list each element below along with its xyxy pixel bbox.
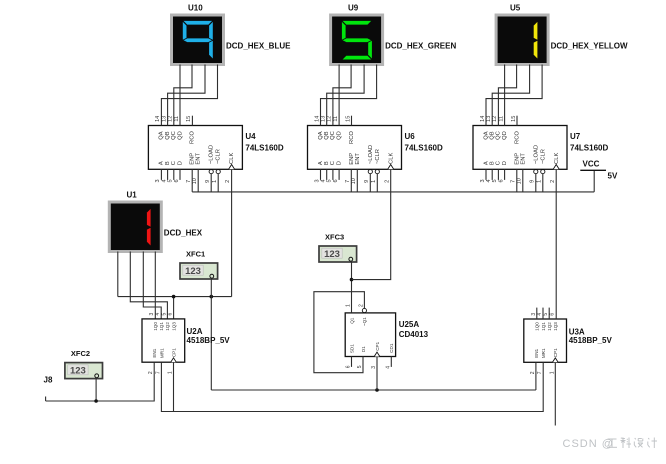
svg-text:U1: U1 — [127, 191, 138, 200]
wire U4 CLK to node N1 — [231, 169, 233, 296]
svg-text:1Q2: 1Q2 — [165, 322, 170, 331]
svg-text:QC: QC — [171, 131, 177, 140]
svg-text:CD4013: CD4013 — [399, 330, 429, 339]
svg-text:QA: QA — [483, 131, 489, 140]
junction N2 — [375, 388, 379, 392]
svg-text:10: 10 — [517, 178, 523, 184]
svg-text:A: A — [483, 161, 489, 165]
wire enable bus to VCC — [192, 191, 594, 193]
svg-text:4518BP_5V: 4518BP_5V — [187, 336, 231, 345]
svg-text:U4: U4 — [245, 132, 256, 141]
wire U7 CLK to U3A 1Q3 — [555, 169, 557, 319]
svg-text:1: 1 — [371, 180, 377, 183]
svg-text:C: C — [330, 161, 336, 165]
wire node bus U1 pin1 — [118, 296, 232, 298]
svg-text:15: 15 — [511, 116, 517, 122]
svg-text:9: 9 — [364, 180, 370, 183]
svg-text:4: 4 — [385, 366, 391, 369]
svg-text:QD: QD — [502, 131, 508, 140]
svg-text:U10: U10 — [188, 4, 203, 13]
svg-text:~LOAD: ~LOAD — [533, 145, 539, 164]
svg-text:6: 6 — [168, 312, 174, 315]
svg-text:2: 2 — [358, 304, 364, 307]
svg-text:15: 15 — [345, 116, 351, 122]
svg-text:1Q0: 1Q0 — [153, 322, 158, 331]
svg-text:~LOAD: ~LOAD — [368, 145, 374, 164]
svg-text:B: B — [490, 161, 496, 165]
wire U25A CP1 drop — [376, 357, 378, 391]
svg-text:SD1: SD1 — [349, 344, 354, 353]
frequency counter XFC3 — [319, 246, 357, 262]
svg-text:~CLR: ~CLR — [216, 149, 222, 164]
svg-text:4: 4 — [486, 179, 492, 182]
svg-text:DCD_HEX_BLUE: DCD_HEX_BLUE — [226, 42, 291, 51]
svg-text:5: 5 — [168, 179, 174, 182]
svg-text:~CLR: ~CLR — [540, 149, 546, 164]
svg-text:6: 6 — [333, 179, 339, 182]
svg-text:U6: U6 — [405, 132, 416, 141]
wire XFC1 terminal down — [210, 278, 212, 390]
svg-text:D: D — [336, 161, 342, 165]
svg-text:74LS160D: 74LS160D — [405, 144, 443, 153]
svg-text:4518BP_5V: 4518BP_5V — [569, 336, 613, 345]
junction N1a — [172, 295, 176, 299]
svg-text:74LS160D: 74LS160D — [570, 144, 608, 153]
svg-text:4: 4 — [161, 179, 167, 182]
svg-text:1: 1 — [212, 180, 218, 183]
wire J8 to U2A EN1 — [46, 362, 155, 401]
svg-text:Q1: Q1 — [349, 317, 354, 324]
7-seg display U1 — [109, 202, 161, 252]
svg-text:1Q3: 1Q3 — [171, 322, 176, 331]
svg-text:QB: QB — [324, 131, 330, 140]
svg-text:CP1: CP1 — [375, 341, 380, 350]
svg-text:RCO: RCO — [349, 131, 355, 144]
svg-text:12: 12 — [168, 116, 174, 122]
counter U6 74LS160D — [308, 116, 402, 192]
svg-text:~CLR: ~CLR — [375, 149, 381, 164]
svg-text:7: 7 — [155, 371, 161, 374]
wire U1 pin4 to U2A 1Q0 — [154, 252, 156, 320]
svg-text:5V: 5V — [608, 172, 618, 181]
svg-text:123: 123 — [185, 266, 201, 277]
svg-text:6: 6 — [498, 179, 504, 182]
wire display pin3 to counter QB — [327, 65, 364, 126]
svg-text:DCD_HEX_GREEN: DCD_HEX_GREEN — [385, 42, 456, 51]
svg-text:3: 3 — [314, 179, 320, 182]
wire display pin3 to counter QB — [168, 65, 205, 126]
svg-text:J8: J8 — [44, 376, 53, 385]
wire display pin2 to counter QC — [333, 65, 351, 126]
svg-text:2: 2 — [384, 180, 390, 183]
svg-text:CLK: CLK — [554, 153, 560, 164]
svg-text:9: 9 — [529, 180, 535, 183]
wire display pin3 to counter QB — [492, 65, 529, 126]
wire U2A CP1 drop — [173, 362, 175, 411]
svg-text:A: A — [159, 161, 165, 165]
wire XFC1 net horizontal — [211, 389, 536, 391]
svg-text:B: B — [324, 161, 330, 165]
svg-text:3: 3 — [149, 312, 155, 315]
svg-text:ENT: ENT — [520, 153, 526, 165]
junction N4 — [350, 278, 354, 282]
svg-text:5: 5 — [327, 179, 333, 182]
wire U3A top stubs — [536, 308, 538, 319]
svg-text:XFC1: XFC1 — [186, 250, 205, 259]
svg-text:6: 6 — [346, 365, 352, 368]
wire XFC3 to U25A Q1 — [351, 261, 353, 313]
svg-text:5: 5 — [161, 312, 167, 315]
wire MR net — [161, 362, 543, 411]
wire U1 pin1 riser — [117, 252, 119, 297]
svg-text:4: 4 — [321, 179, 327, 182]
svg-text:5: 5 — [492, 179, 498, 182]
svg-text:CLK: CLK — [229, 153, 235, 164]
svg-text:2: 2 — [550, 180, 556, 183]
svg-text:2: 2 — [225, 180, 231, 183]
svg-text:QA: QA — [159, 131, 165, 140]
svg-text:C: C — [496, 161, 502, 165]
svg-text:QD: QD — [177, 131, 183, 140]
svg-text:B: B — [165, 161, 171, 165]
wire Q1 to U6 CLK — [352, 169, 391, 279]
counter U2A 4518BP_5V — [142, 312, 185, 374]
svg-text:DCD_HEX: DCD_HEX — [164, 229, 203, 238]
svg-text:~Q1: ~Q1 — [362, 317, 367, 326]
wire XFC2 terminal down — [95, 378, 97, 401]
svg-text:6: 6 — [549, 313, 555, 316]
svg-text:U25A: U25A — [399, 320, 420, 329]
wire U2A 1Q3 riser — [173, 297, 175, 319]
svg-text:~LOAD: ~LOAD — [209, 145, 215, 164]
svg-text:QC: QC — [496, 131, 502, 140]
svg-text:4: 4 — [155, 312, 161, 315]
svg-text:U2A: U2A — [187, 327, 203, 336]
svg-text:C: C — [171, 161, 177, 165]
svg-text:3: 3 — [155, 179, 161, 182]
wire U3A EN1 riser — [535, 362, 537, 390]
wire display pin4 to counter QA — [161, 65, 217, 126]
svg-text:CLK: CLK — [388, 153, 394, 164]
7-seg display U9 — [331, 15, 383, 65]
svg-text:MR1: MR1 — [541, 348, 546, 358]
svg-text:11: 11 — [333, 116, 339, 122]
svg-text:1Q1: 1Q1 — [159, 322, 164, 331]
connector J8 pin tick — [45, 397, 47, 402]
svg-text:9: 9 — [205, 180, 211, 183]
svg-text:6: 6 — [174, 179, 180, 182]
frequency counter XFC1 — [180, 263, 218, 279]
wire U1 pin3 to U2A 1Q1 — [143, 252, 161, 320]
svg-text:D1: D1 — [361, 346, 366, 352]
counter U4 74LS160D — [148, 116, 242, 192]
svg-text:DCD_HEX_YELLOW: DCD_HEX_YELLOW — [551, 42, 628, 51]
wire U25A SD1 stub — [351, 357, 353, 367]
wire display pin1 to counter QD — [504, 65, 506, 126]
svg-text:D: D — [177, 161, 183, 165]
wire display pin4 to counter QA — [486, 65, 542, 126]
svg-text:14: 14 — [480, 116, 486, 122]
svg-text:10: 10 — [192, 178, 198, 184]
counter U3A 4518BP_5V — [524, 313, 567, 375]
svg-text:123: 123 — [324, 249, 340, 260]
svg-text:11: 11 — [498, 116, 504, 122]
svg-text:QC: QC — [330, 131, 336, 140]
wire display pin2 to counter QC — [174, 65, 192, 126]
svg-text:1: 1 — [346, 304, 352, 307]
svg-text:EN1: EN1 — [152, 348, 157, 357]
svg-text:U7: U7 — [570, 132, 581, 141]
svg-text:7: 7 — [537, 371, 543, 374]
svg-text:12: 12 — [327, 116, 333, 122]
svg-text:2: 2 — [148, 371, 154, 374]
wire display pin2 to counter QC — [498, 65, 516, 126]
watermark CSDN @工科设计 — [563, 438, 658, 451]
7-seg display U5 — [496, 15, 548, 65]
wire VCC drop — [593, 170, 595, 192]
svg-text:U5: U5 — [510, 4, 521, 13]
svg-text:4: 4 — [537, 313, 543, 316]
svg-text:1Q1: 1Q1 — [541, 322, 546, 331]
svg-text:10: 10 — [351, 178, 357, 184]
wire U25A CD1 stub — [390, 357, 392, 367]
svg-text:ENT: ENT — [355, 153, 361, 165]
svg-text:74LS160D: 74LS160D — [245, 144, 283, 153]
svg-text:1: 1 — [549, 371, 555, 374]
wire display pin4 to counter QA — [321, 65, 377, 126]
svg-text:1Q3: 1Q3 — [553, 322, 558, 331]
svg-text:QD: QD — [336, 131, 342, 140]
svg-text:13: 13 — [321, 116, 327, 122]
svg-text:XFC3: XFC3 — [325, 233, 344, 242]
svg-text:1: 1 — [536, 180, 542, 183]
svg-text:CSDN @: CSDN @ — [563, 438, 614, 450]
wire U3A CP1 stub — [554, 362, 556, 425]
svg-text:U9: U9 — [348, 4, 359, 13]
svg-text:QB: QB — [165, 131, 171, 140]
svg-text:ENT: ENT — [196, 153, 202, 165]
junction N1b — [210, 295, 214, 299]
svg-text:RCO: RCO — [514, 131, 520, 144]
7-seg display U10 — [172, 15, 224, 65]
junction N3 — [94, 399, 98, 403]
VCC power symbol 5V — [580, 160, 618, 181]
svg-text:1: 1 — [168, 371, 174, 374]
svg-text:CP1: CP1 — [171, 348, 176, 357]
svg-text:12: 12 — [492, 116, 498, 122]
svg-text:123: 123 — [70, 365, 86, 376]
svg-text:VCC: VCC — [583, 160, 600, 169]
svg-text:5: 5 — [357, 365, 363, 368]
wire display pin1 to counter QD — [179, 65, 181, 126]
svg-text:EN1: EN1 — [534, 348, 539, 357]
svg-text:11: 11 — [174, 116, 180, 122]
counter U7 74LS160D — [473, 116, 567, 192]
svg-text:RCO: RCO — [190, 131, 196, 144]
svg-text:1Q2: 1Q2 — [547, 322, 552, 331]
svg-text:D: D — [502, 161, 508, 165]
wire display pin1 to counter QD — [338, 65, 340, 126]
svg-text:14: 14 — [314, 116, 320, 122]
svg-text:QA: QA — [318, 131, 324, 140]
svg-text:14: 14 — [155, 116, 161, 122]
svg-text:1Q0: 1Q0 — [535, 322, 540, 331]
flip-flop U25A CD4013 — [345, 304, 395, 369]
svg-text:13: 13 — [161, 116, 167, 122]
svg-text:QB: QB — [490, 131, 496, 140]
svg-text:15: 15 — [186, 116, 192, 122]
frequency counter XFC2 — [65, 363, 103, 379]
svg-text:CP1: CP1 — [553, 348, 558, 357]
svg-text:3: 3 — [531, 313, 537, 316]
svg-text:5: 5 — [543, 313, 549, 316]
wire U25A ~Q1 feedback loop to D1 — [314, 292, 365, 373]
svg-text:CD1: CD1 — [389, 343, 394, 353]
svg-text:A: A — [318, 161, 324, 165]
svg-text:2: 2 — [530, 371, 536, 374]
svg-text:3: 3 — [480, 179, 486, 182]
svg-text:3: 3 — [371, 366, 377, 369]
svg-text:XFC2: XFC2 — [71, 349, 90, 358]
wire U1 pin2 to U2A 1Q2 — [130, 252, 167, 320]
svg-text:U3A: U3A — [569, 328, 585, 337]
svg-text:13: 13 — [486, 116, 492, 122]
svg-text:MR1: MR1 — [159, 348, 164, 358]
